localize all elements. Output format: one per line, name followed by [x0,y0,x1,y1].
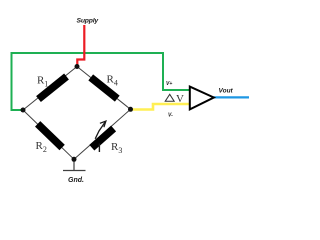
node right [128,107,133,112]
wire blue Vout from op-amp output to right edge [214,96,250,98]
wire yellow from bridge right node to op-amp V- [131,104,191,110]
label delta-V gain triangle [165,94,174,101]
wire bridge arm bottom-right (bottom node to right node) [74,109,131,159]
node top (supply node) [75,64,80,69]
svg-text:V: V [176,93,184,105]
op-amp U1 triangle [190,87,214,110]
node left [21,108,26,113]
resistor R3 wiper arrow [95,121,106,139]
wire red from Supply label down to bridge top node [77,25,84,66]
svg-text:V-: V- [168,113,173,119]
resistor R1 body [36,74,69,103]
svg-text:Supply: Supply [77,17,100,24]
svg-text:Vout: Vout [219,88,234,95]
resistor R3 wiper tick [98,144,100,153]
svg-text:V+: V+ [166,81,172,87]
ground bar [63,170,86,172]
wire green supply rail: left node up-over to op-amp V+ [12,53,191,110]
wire bridge arm bottom-left (left node to bottom node) [23,110,74,159]
resistor R3 body (variable) [89,126,116,151]
wire bridge arm top-right (top node to right node) [77,67,131,110]
ground stem [73,161,75,171]
node bottom (ground node) [72,157,77,162]
wire bridge arm top-left (left node to top node) [23,67,77,111]
resistor R4 body [88,74,119,101]
svg-text:Gnd.: Gnd. [68,177,84,184]
resistor R2 body [35,121,65,150]
